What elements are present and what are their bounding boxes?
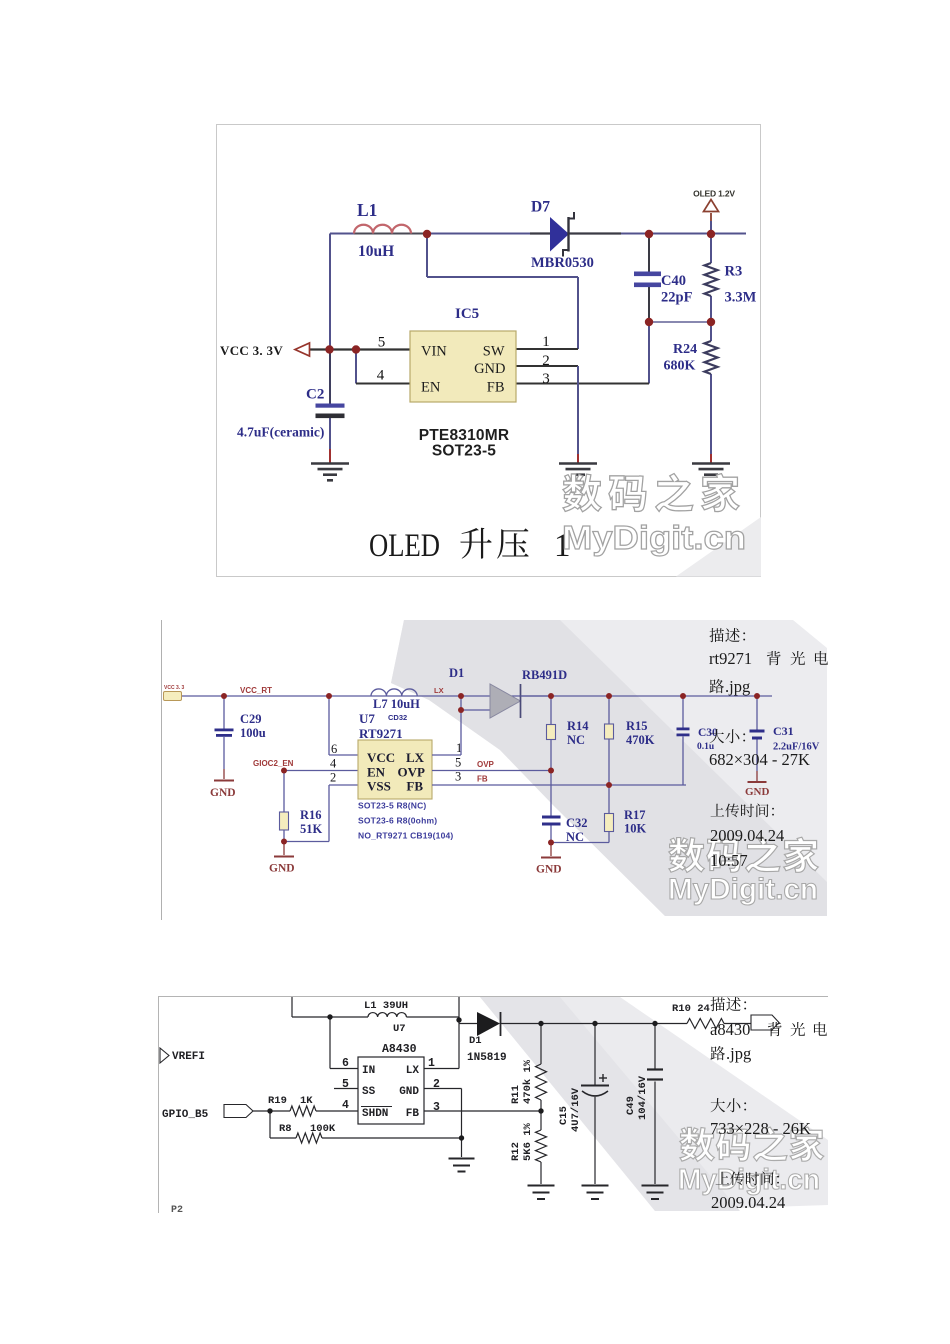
svg-text:LX: LX — [434, 686, 444, 695]
svg-text:104/16V: 104/16V — [637, 1075, 649, 1120]
svg-text:3.3M: 3.3M — [725, 290, 757, 306]
svg-text:FB: FB — [406, 779, 423, 794]
svg-text:R24: R24 — [673, 342, 697, 357]
svg-text:PTE8310MR: PTE8310MR — [419, 427, 510, 444]
svg-text:51K: 51K — [300, 822, 323, 836]
svg-text:1: 1 — [542, 334, 550, 350]
svg-text:682×304 - 27K: 682×304 - 27K — [709, 750, 810, 769]
svg-text:D1: D1 — [449, 666, 464, 680]
svg-text:LX: LX — [406, 750, 425, 765]
svg-text:SOT23-5 R8(NC): SOT23-5 R8(NC) — [358, 801, 426, 811]
svg-text:GND: GND — [210, 787, 236, 799]
svg-text:FB: FB — [477, 775, 488, 784]
svg-text:10uH: 10uH — [358, 243, 394, 260]
svg-text:R11: R11 — [510, 1085, 522, 1104]
svg-text:C31: C31 — [773, 724, 794, 738]
svg-text:4: 4 — [377, 368, 385, 384]
svg-text:NO_RT9271 CB19(104): NO_RT9271 CB19(104) — [358, 831, 453, 841]
svg-text:VCC 3. 3V: VCC 3. 3V — [220, 343, 283, 358]
svg-text:SOT23-6 R8(0ohm): SOT23-6 R8(0ohm) — [358, 816, 437, 826]
svg-text:R14: R14 — [567, 719, 589, 733]
svg-text:R12: R12 — [510, 1142, 522, 1161]
svg-text:MyDigit.cn: MyDigit.cn — [678, 1164, 820, 1196]
svg-text:100K: 100K — [310, 1123, 336, 1135]
svg-text:RT9271: RT9271 — [359, 726, 403, 741]
svg-text:C30: C30 — [698, 727, 718, 739]
svg-text:C29: C29 — [240, 712, 262, 726]
svg-text:OVP: OVP — [398, 765, 426, 780]
svg-text:R19: R19 — [268, 1095, 287, 1107]
svg-text:GIOC2_EN: GIOC2_EN — [253, 759, 294, 768]
svg-text:GND: GND — [269, 863, 295, 875]
svg-text:2009.04.24: 2009.04.24 — [710, 826, 784, 845]
svg-text:SW: SW — [483, 344, 505, 360]
svg-text:680K: 680K — [664, 359, 696, 374]
svg-text:D7: D7 — [531, 199, 550, 216]
svg-text:SHDN: SHDN — [362, 1108, 388, 1120]
svg-text:A8430: A8430 — [382, 1043, 417, 1056]
svg-text:L7 10uH: L7 10uH — [373, 697, 420, 711]
svg-text:VCC 3. 3: VCC 3. 3 — [164, 685, 185, 691]
svg-text:U7: U7 — [359, 711, 375, 726]
svg-text:MBR0530: MBR0530 — [531, 255, 594, 271]
svg-text:100u: 100u — [240, 726, 266, 740]
svg-text:GND: GND — [745, 786, 770, 798]
svg-text:VCC_RT: VCC_RT — [240, 686, 272, 695]
svg-text:EN: EN — [421, 380, 441, 396]
svg-text:L1 39UH: L1 39UH — [364, 1000, 408, 1012]
svg-text:22pF: 22pF — [661, 290, 693, 306]
svg-text:VSS: VSS — [367, 779, 391, 794]
svg-text:1K: 1K — [300, 1095, 313, 1107]
svg-text:OLED: OLED — [369, 528, 440, 564]
svg-text:5: 5 — [455, 756, 461, 770]
svg-text:R17: R17 — [624, 808, 646, 822]
svg-text:5K6 1%: 5K6 1% — [522, 1122, 534, 1161]
svg-text:LX: LX — [406, 1065, 420, 1077]
svg-text:.jpg: .jpg — [725, 677, 750, 696]
svg-text:.jpg: .jpg — [726, 1044, 751, 1063]
svg-text:470k 1%: 470k 1% — [522, 1059, 534, 1104]
svg-text:FB: FB — [487, 380, 505, 396]
svg-text:VREFI: VREFI — [172, 1051, 205, 1063]
svg-text:R16: R16 — [300, 808, 322, 822]
svg-text:GND: GND — [399, 1086, 419, 1098]
svg-text:CD32: CD32 — [388, 713, 407, 722]
svg-text:10K: 10K — [624, 822, 647, 836]
svg-text:D1: D1 — [469, 1035, 482, 1047]
svg-text:GND: GND — [536, 864, 562, 876]
svg-text:a8430: a8430 — [710, 1020, 750, 1039]
svg-text:3: 3 — [455, 770, 461, 784]
svg-text:C2: C2 — [306, 387, 324, 403]
svg-text:GPIO_B5: GPIO_B5 — [162, 1109, 209, 1121]
svg-text:R10 24: R10 24 — [672, 1003, 710, 1015]
svg-text:2: 2 — [542, 353, 550, 369]
svg-text:6: 6 — [331, 742, 337, 756]
svg-text:C32: C32 — [566, 816, 588, 830]
svg-text:L1: L1 — [357, 200, 377, 220]
svg-text:IN: IN — [362, 1065, 375, 1077]
svg-text:MyDigit.cn: MyDigit.cn — [562, 520, 746, 557]
svg-text:VIN: VIN — [421, 344, 447, 360]
svg-text:3: 3 — [542, 371, 550, 387]
svg-text:U7: U7 — [393, 1023, 406, 1035]
svg-text:IC5: IC5 — [455, 306, 479, 322]
svg-text:R15: R15 — [626, 719, 648, 733]
svg-text:OLED 1.2V: OLED 1.2V — [693, 189, 735, 199]
svg-text:4U7/16V: 4U7/16V — [570, 1087, 582, 1132]
svg-text:C15: C15 — [558, 1106, 570, 1125]
svg-text:2009.04.24: 2009.04.24 — [711, 1193, 785, 1212]
svg-text:1N5819: 1N5819 — [467, 1052, 507, 1064]
svg-text:R3: R3 — [725, 264, 743, 280]
svg-text:P2: P2 — [171, 1205, 183, 1216]
svg-text:OVP: OVP — [477, 760, 495, 769]
svg-text:RB491D: RB491D — [522, 668, 567, 682]
svg-text:5: 5 — [378, 335, 386, 351]
svg-text:C49: C49 — [625, 1096, 637, 1115]
svg-text:733×228 - 26K: 733×228 - 26K — [710, 1119, 811, 1138]
svg-text:2: 2 — [330, 771, 336, 785]
svg-text:4: 4 — [342, 1099, 349, 1112]
svg-text:EN: EN — [367, 765, 386, 780]
svg-text:3: 3 — [433, 1101, 440, 1114]
svg-text:4: 4 — [330, 757, 337, 771]
svg-text:10:57: 10:57 — [710, 851, 748, 870]
svg-text:C40: C40 — [661, 273, 686, 289]
svg-text:MyDigit.cn: MyDigit.cn — [668, 873, 818, 906]
svg-text:FB: FB — [406, 1108, 420, 1120]
svg-text:GND: GND — [474, 361, 505, 377]
svg-text:NC: NC — [567, 733, 585, 747]
svg-text:4.7uF(ceramic): 4.7uF(ceramic) — [237, 425, 324, 440]
svg-text:R8: R8 — [279, 1123, 292, 1135]
svg-text:VCC: VCC — [367, 750, 395, 765]
svg-text:SS: SS — [362, 1086, 376, 1098]
svg-text:SOT23-5: SOT23-5 — [432, 443, 496, 460]
svg-text:rt9271: rt9271 — [709, 649, 752, 668]
svg-text:6: 6 — [342, 1057, 349, 1070]
svg-text:470K: 470K — [626, 733, 655, 747]
